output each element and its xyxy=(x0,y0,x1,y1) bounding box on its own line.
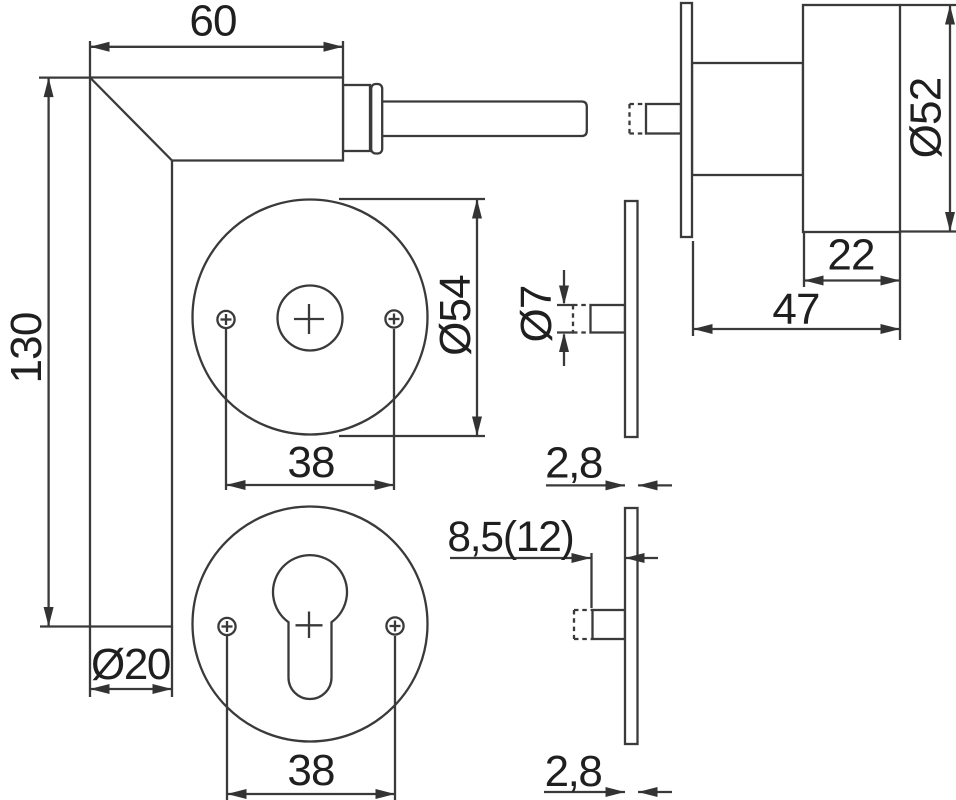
dim O7 arrow line top xyxy=(563,270,565,303)
spindle shaft xyxy=(378,102,587,137)
handle collar flange xyxy=(371,84,382,154)
dim 22 extension left xyxy=(803,232,805,287)
lever handle neck (behind collar) xyxy=(343,85,370,151)
dim O7 tick bottom xyxy=(557,331,574,333)
dim O20 extension left xyxy=(89,627,91,698)
spindle stub dashed (top plate) xyxy=(573,305,591,333)
dim 130 tick bottom xyxy=(40,625,90,627)
euro profile cylinder hole xyxy=(273,555,347,699)
screw right (O54 rosette) xyxy=(385,310,402,327)
dim 2,8 bottom leader xyxy=(544,791,625,793)
dim O52 arrow up xyxy=(945,5,955,25)
knob spindle stub dashed xyxy=(630,104,647,134)
screw right (keyhole rosette) xyxy=(386,617,403,634)
dim 38 mid arrow left xyxy=(226,480,246,490)
dim 38 bottom arrow right xyxy=(376,789,396,799)
dim 2,8 top leader xyxy=(546,484,625,486)
dim 38 bottom arrow left xyxy=(227,789,247,799)
screw left (O54 rosette) xyxy=(217,311,234,328)
dim O52 line xyxy=(949,5,951,232)
spindle stub solid (top plate) xyxy=(591,305,626,333)
dim 22 line xyxy=(804,279,900,281)
svg-text:Ø52: Ø52 xyxy=(902,78,951,159)
rosette O54 hole circle xyxy=(278,286,343,351)
dim O54 line xyxy=(476,199,478,436)
dim O7 arrow line bottom xyxy=(563,335,565,367)
svg-text:60: 60 xyxy=(189,0,236,46)
dim 8,5(12) extension line xyxy=(590,553,592,608)
dim 60 arrow right xyxy=(324,42,344,52)
svg-text:Ø7: Ø7 xyxy=(512,285,561,342)
svg-text:38: 38 xyxy=(287,438,334,487)
rosette O54 outer circle xyxy=(193,200,428,435)
dim 38 bottom extension left xyxy=(226,636,228,800)
dim 47 arrow right xyxy=(881,324,901,334)
dim O20 arrow left xyxy=(90,684,110,694)
dim O54 extension top xyxy=(339,198,485,200)
rosette side-view plate top xyxy=(625,201,638,437)
cylinder stub dashed (bottom plate) xyxy=(574,610,593,639)
dim 130 line xyxy=(47,78,49,627)
knob spindle stub solid xyxy=(646,104,681,134)
dim 2,8 top right stub xyxy=(638,484,672,486)
svg-text:2,8: 2,8 xyxy=(545,439,602,488)
dim 22 arrow right xyxy=(881,276,901,286)
screw left (keyhole rosette) xyxy=(218,618,235,635)
rosette side-view plate bottom xyxy=(625,508,638,744)
dim 60 arrow left xyxy=(90,42,110,52)
dim 2,8 bottom right stub xyxy=(638,791,672,793)
dim 60 line xyxy=(90,46,343,48)
dim O52 extension top xyxy=(900,4,956,6)
dim 130 arrow down xyxy=(44,607,54,627)
dim 38 mid arrow right xyxy=(375,480,395,490)
dim 22 extension right xyxy=(899,232,901,340)
dim 130 tick top xyxy=(39,76,91,78)
knob neck xyxy=(692,63,803,175)
dim O20 arrow right xyxy=(153,684,173,694)
svg-text:2,8: 2,8 xyxy=(545,747,602,796)
dim 38 mid extension right xyxy=(393,329,395,490)
dim O52 extension bottom xyxy=(900,230,956,232)
keyhole rosette center cross xyxy=(296,624,323,626)
dim 38 mid extension left xyxy=(225,329,227,490)
knob body xyxy=(803,5,900,232)
dim 60 extension right xyxy=(342,41,344,78)
dim O54 extension bottom xyxy=(339,435,485,437)
dim 38 bottom extension right xyxy=(394,636,396,800)
keyhole rosette outer circle xyxy=(193,507,428,742)
dim 38 bottom line xyxy=(227,793,395,795)
dim 47 extension left xyxy=(692,241,694,336)
dim 8,5(12) counter arrow xyxy=(625,557,658,559)
knob rosette plate side view xyxy=(681,3,692,237)
rosette O54 center cross xyxy=(294,318,324,320)
dim 22 arrow left xyxy=(804,276,824,286)
dim 8,5(12) leader xyxy=(450,557,591,559)
svg-text:38: 38 xyxy=(287,746,334,795)
dim O7 tick top xyxy=(557,304,574,306)
svg-text:Ø54: Ø54 xyxy=(431,275,480,356)
svg-text:Ø20: Ø20 xyxy=(91,640,170,689)
svg-text:47: 47 xyxy=(772,285,819,334)
svg-text:22: 22 xyxy=(827,231,874,280)
dim 38 mid line xyxy=(226,484,394,486)
dim 60 extension left xyxy=(89,41,91,78)
dim 47 line xyxy=(693,328,900,330)
dim O54 arrow down xyxy=(472,417,482,437)
dim 47 arrow left xyxy=(693,324,713,334)
dim 130 arrow up xyxy=(44,78,54,98)
dim O52 arrow down xyxy=(945,212,955,232)
dim O54 arrow up xyxy=(472,199,482,219)
cylinder stub solid (bottom plate) xyxy=(593,610,626,639)
lever bevel diagonal xyxy=(90,78,172,161)
svg-text:130: 130 xyxy=(2,312,51,383)
lever handle outline xyxy=(90,78,343,627)
svg-text:8,5(12): 8,5(12) xyxy=(447,514,573,561)
dim O20 extension right xyxy=(171,627,173,698)
dim O20 line xyxy=(90,688,172,690)
